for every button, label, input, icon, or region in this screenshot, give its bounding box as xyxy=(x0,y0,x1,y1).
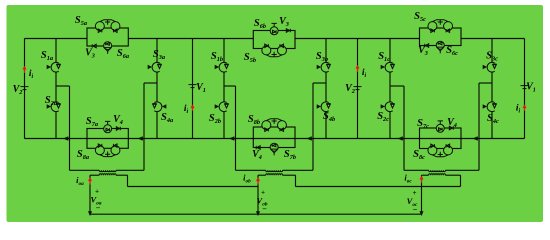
svg-text:−: − xyxy=(96,204,101,213)
svg-text:+: + xyxy=(413,189,417,197)
svg-text:−: − xyxy=(262,205,267,214)
svg-text:−: − xyxy=(413,205,418,214)
